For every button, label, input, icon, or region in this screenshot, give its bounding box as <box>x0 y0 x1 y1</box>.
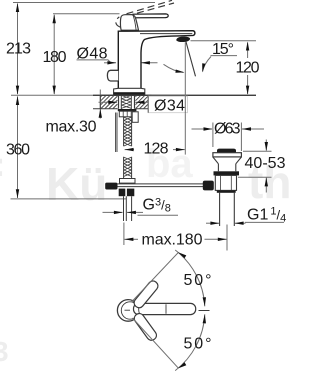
dim 128 left arrow <box>125 149 134 151</box>
threaded mounting rod upper <box>124 117 132 147</box>
svg-text:40-53: 40-53 <box>245 155 286 172</box>
spout axis line over box <box>184 96 186 113</box>
swivel pivot inner circle <box>121 302 138 319</box>
dim line 180 vertical <box>53 15 55 94</box>
arrowheads 120 <box>246 42 249 51</box>
svg-text:50°: 50° <box>184 336 212 353</box>
threaded mounting rod lower <box>124 157 132 179</box>
check valve block <box>120 179 136 184</box>
lever middle position (horizontal) <box>134 303 196 314</box>
drain centerline <box>226 225 228 251</box>
label 15deg underline <box>211 55 238 57</box>
drain plug cap <box>217 149 236 153</box>
deck slab right of shank <box>135 95 151 109</box>
dia63 right arrow <box>242 128 264 130</box>
40-53 bottom ext line <box>238 176 272 178</box>
extension line handle top ref <box>53 13 120 15</box>
drain locknut <box>215 175 236 190</box>
svg-text:Ø34: Ø34 <box>154 98 185 115</box>
shank outer tube through deck <box>119 95 135 109</box>
svg-text:max.30: max.30 <box>46 119 97 136</box>
faucet base plate <box>114 88 145 94</box>
svg-text:128: 128 <box>144 141 169 158</box>
deck slab left of shank <box>93 95 118 109</box>
max.30 leader vertical <box>99 90 101 119</box>
mounting locknut <box>119 111 135 117</box>
horizontal pop-up rod <box>118 184 204 187</box>
drain flange plate <box>213 153 242 157</box>
svg-text:Kü: Kü <box>46 158 107 210</box>
dia34 left arrow <box>99 101 118 103</box>
dim 128 right arrow <box>173 149 185 151</box>
dim line 120 vertical lower <box>247 75 249 94</box>
svg-text:max.180: max.180 <box>142 232 203 249</box>
lever inner line <box>165 304 167 314</box>
svg-text:Ø63: Ø63 <box>214 121 241 138</box>
swivel arc upper <box>175 250 205 306</box>
svg-text:360: 360 <box>6 142 30 159</box>
pull rod <box>116 113 117 153</box>
lever lower position (50 down) <box>132 312 158 342</box>
faucet body and spout outline <box>118 31 195 89</box>
arrowheads 180 <box>53 14 56 23</box>
G3/8 connection blocks <box>119 189 126 197</box>
lever hub <box>120 15 138 31</box>
spout second contour line <box>140 33 192 35</box>
drain tailpipe <box>220 193 235 226</box>
watermark <box>0 142 291 367</box>
extension line supply end (360 bottom ref) <box>11 198 127 200</box>
svg-text:3: 3 <box>0 336 9 367</box>
40-53 upper arrow <box>265 140 267 151</box>
svg-text::: : <box>0 146 5 184</box>
dim line 120 vertical upper <box>247 43 249 59</box>
svg-text:50°: 50° <box>184 272 212 289</box>
G1 1/4 right arrow (pipe right) <box>235 222 246 224</box>
G3/8 right arrow <box>127 211 143 213</box>
dia63 left arrow <box>192 128 213 130</box>
base gasket dark band <box>114 92 145 94</box>
40-53 lower arrow <box>265 178 267 193</box>
dia34 right arrow <box>135 101 151 103</box>
deck top surface line <box>11 94 256 96</box>
lever upper position (50 up) <box>132 279 160 310</box>
arrowhead max.30 <box>99 109 102 118</box>
svg-text:180: 180 <box>43 49 67 66</box>
dia48 left arrow <box>104 62 116 64</box>
extension line top (raised lever height ref) <box>13 2 155 4</box>
swivel pivot outer circle <box>117 300 139 322</box>
drain funnel sides <box>213 157 242 164</box>
pop-up rod attachment block <box>132 112 138 123</box>
dim line 360 vertical <box>17 97 19 199</box>
drain seal band <box>214 171 240 175</box>
max.180 right arrow <box>205 238 227 240</box>
G1 1/4 left arrow (pipe left) <box>206 222 219 224</box>
drain rod knob <box>203 181 214 191</box>
drain upper body <box>218 164 235 172</box>
svg-text:15°: 15° <box>212 41 234 58</box>
lever bar <box>133 14 168 18</box>
15 deg spray line <box>186 42 196 77</box>
pull-rod knob at back <box>107 70 118 81</box>
dia48 right arrow <box>141 62 158 64</box>
arc arrowhead below lever <box>203 314 206 323</box>
G3/8 underline <box>138 214 179 216</box>
hub inner contour <box>133 15 136 30</box>
arc arrowhead bottom <box>178 362 187 368</box>
arrowheads 213 <box>16 3 19 12</box>
arrowheads 360 <box>16 96 19 105</box>
G3/8 left arrow <box>103 211 123 213</box>
max.180 left ext line <box>123 223 125 246</box>
ghost raised lever dashes <box>116 0 174 27</box>
rod adjuster knob left <box>105 183 117 190</box>
washer under deck <box>118 109 137 111</box>
radial line 50 down <box>133 318 179 368</box>
drain nut bottom band <box>217 190 236 192</box>
max.180 left arrow <box>124 238 138 240</box>
radial line 50 up <box>132 253 179 303</box>
arc arrowhead top <box>178 252 187 258</box>
aerator level line (120 top ref) <box>191 40 257 42</box>
svg-text:213: 213 <box>6 41 31 58</box>
pivot center mark <box>125 309 131 311</box>
spout axis reference vertical <box>184 43 186 155</box>
G1 1/4 underline leader <box>245 221 284 223</box>
supply nipple tube <box>124 196 132 221</box>
dia34 label box <box>148 96 187 113</box>
lever tip reference tick <box>199 310 210 312</box>
arc arrowhead above lever <box>203 297 206 306</box>
svg-text:G3/8: G3/8 <box>143 197 171 215</box>
dia63 ext lines <box>213 123 242 152</box>
svg-text:G11/4: G11/4 <box>247 206 286 225</box>
dim line 213 vertical <box>17 4 19 95</box>
swivel arc lower <box>175 314 205 370</box>
15 deg arc left part <box>164 64 184 72</box>
15 deg arc right part <box>203 57 211 72</box>
aerator <box>176 37 190 42</box>
dia48 leader underline <box>77 60 112 63</box>
40-53 top ext line <box>243 150 272 152</box>
svg-text:120: 120 <box>236 60 260 77</box>
shank threaded tube <box>121 95 131 110</box>
